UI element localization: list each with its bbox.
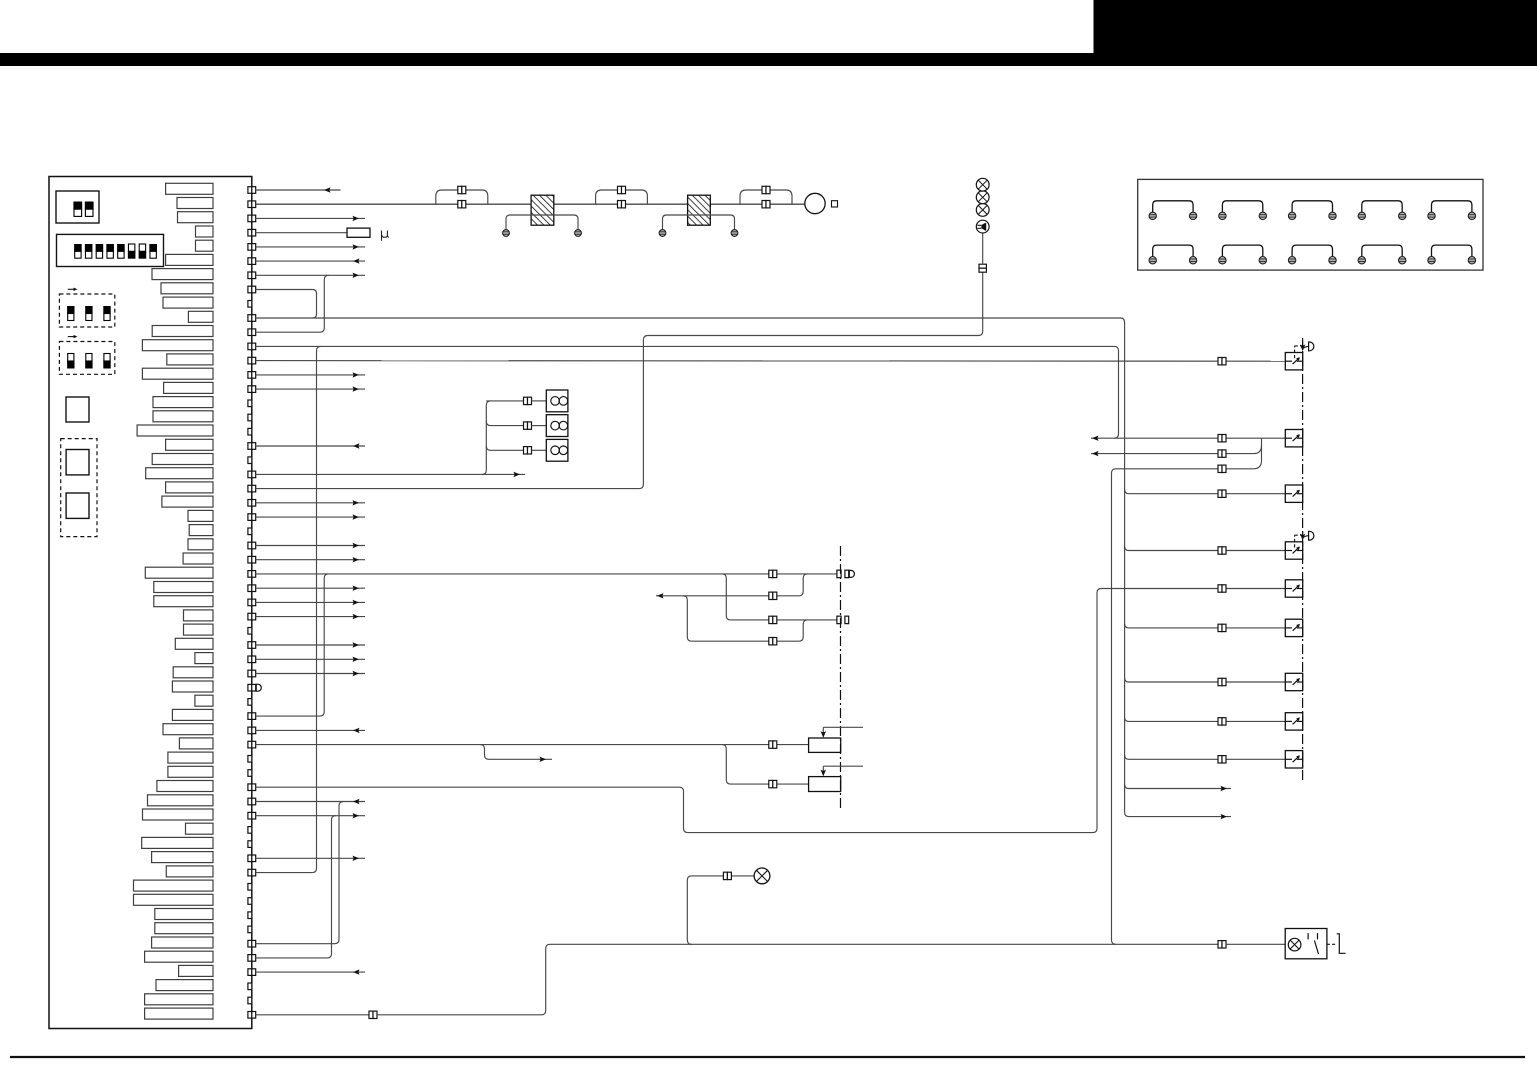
connector SW8	[1218, 718, 1222, 725]
jumper link row1 #5	[1428, 201, 1476, 220]
connector pin 19	[248, 443, 252, 450]
connector pin 14	[248, 372, 252, 379]
signal label bar 31	[184, 610, 214, 621]
connector pin 43	[248, 784, 252, 791]
switch SW4	[1285, 531, 1314, 559]
option unit box 3 (OO)	[546, 439, 568, 461]
wire pin 27 stub (out)	[256, 559, 365, 561]
connector pin 10	[248, 315, 252, 322]
switch SW5	[1285, 580, 1302, 597]
connector pin 31	[248, 613, 252, 620]
wire A branch down to wire C	[722, 574, 731, 620]
wire B branch down to wire D	[683, 596, 692, 641]
connector pin 44	[248, 798, 252, 805]
signal label bar 25	[189, 525, 213, 536]
connector lamp unit	[1218, 941, 1222, 948]
jumper link row2 #2	[1219, 245, 1267, 264]
signal label bar 6	[166, 254, 213, 265]
signal label bar 47	[142, 837, 213, 848]
lamp-switch unit box	[1285, 929, 1327, 959]
connector relay K1 feed	[769, 741, 773, 748]
signal label bar 59	[145, 1008, 213, 1019]
connector bottom run	[369, 1011, 373, 1018]
switch SW7	[1285, 673, 1302, 690]
signal label bar 43	[157, 781, 213, 792]
signal label bar 23	[162, 496, 213, 507]
switch SW9	[1285, 751, 1302, 768]
connector pin 41	[248, 756, 252, 763]
wire pin12 branch down to pin49	[256, 346, 321, 872]
connector pin 2	[248, 201, 252, 208]
signal label bar 4	[196, 226, 214, 237]
jumper link row2 #3	[1288, 245, 1336, 264]
connector pin 1	[248, 187, 252, 194]
connector pin 30	[248, 599, 252, 606]
wire pin43 long run to V1	[256, 589, 1102, 833]
connector SW4	[1218, 547, 1222, 554]
connector pair J3 with bypass loop	[740, 186, 792, 208]
jumper link row1 #2	[1219, 201, 1267, 220]
connector pin 33	[248, 642, 252, 649]
signal label bar 15	[164, 382, 213, 393]
wire pin 34 stub (out)	[256, 658, 365, 660]
connector pin 7	[248, 272, 252, 279]
switch SW1 heater	[1285, 342, 1314, 370]
signal label bar 42	[168, 766, 213, 777]
connector pin 24	[248, 514, 252, 521]
connector pin 23	[248, 500, 252, 507]
wire pin 30 stub (out)	[256, 601, 365, 603]
signal label bar 46	[186, 823, 214, 834]
relay K1	[809, 738, 841, 752]
connector pin 52	[248, 912, 252, 919]
signal label bar 54	[152, 937, 213, 948]
connector pin 15	[248, 386, 252, 393]
wire pin12 long run to V2a	[256, 346, 1119, 438]
header rule bar	[0, 53, 1537, 66]
signal label bar 19	[166, 439, 213, 450]
connector SW5	[1218, 585, 1222, 592]
switch SW6	[1285, 619, 1302, 636]
switch SW8	[1285, 713, 1302, 730]
connector pin 11	[248, 329, 252, 336]
manual actuator dashed link	[1327, 943, 1336, 945]
merge vertical before SW2	[1253, 438, 1261, 469]
connector pin 51	[248, 898, 252, 905]
wire pin 35 stub (out)	[256, 673, 365, 675]
signal label bar 35	[173, 667, 213, 678]
wire pin 24 stub (out)	[256, 516, 365, 518]
connector pin 56	[248, 969, 252, 976]
option unit box 1 (OO)	[546, 390, 568, 412]
wire option unit 2 feed	[486, 421, 523, 425]
jumper link row2 #1	[1149, 245, 1197, 264]
option feed bus	[482, 401, 491, 475]
inline connector on stack feed	[979, 264, 986, 268]
connector pin 3	[248, 215, 252, 222]
connector pin 25	[248, 528, 252, 535]
wire branch to arrow stub	[480, 745, 552, 760]
connector pin 49	[248, 869, 252, 876]
signal label bar 40	[179, 738, 213, 749]
connector pin 13	[248, 357, 252, 364]
wire arrow stub from V3 (y816)	[1125, 812, 1231, 816]
DIP switch block S2 (8 switches)	[57, 234, 164, 266]
wire pin13 long run to heater switch SW1	[256, 360, 1286, 363]
connector option 1	[524, 397, 528, 404]
signal label bar 29	[154, 582, 213, 593]
bus V2	[1112, 469, 1254, 945]
wire pin59 long bottom run to lamp unit	[256, 1014, 369, 1016]
signal label bar 49	[166, 866, 213, 877]
wire pin21 with branch to option units	[256, 473, 525, 475]
connector SW2	[1218, 435, 1222, 442]
wire pin28-pin38 vertical link	[256, 574, 329, 716]
connector option 3	[524, 447, 528, 454]
signal label bar 53	[155, 923, 213, 934]
wire pin 15 stub (out)	[256, 388, 365, 390]
wire pin 7 stub (out)	[256, 274, 365, 276]
dashed module with two squares	[61, 439, 97, 537]
wire pin 6 stub (in)	[256, 260, 365, 262]
connector pin 50	[248, 884, 252, 891]
wire SW5 from bus V1	[1101, 588, 1285, 590]
signal label bar 55	[145, 951, 213, 962]
wire SW6 from bus V3	[1125, 624, 1286, 628]
component square U1	[66, 397, 89, 422]
buzzer BZ1	[976, 220, 989, 233]
wire SW4 from bus V3	[1125, 546, 1286, 550]
signal label bar 38	[172, 709, 213, 720]
wire option unit 1 feed	[486, 400, 523, 402]
signal label bar 28	[145, 567, 213, 578]
DIP switch block S1 (2 switches)	[56, 191, 99, 223]
wire lamp L4 drop	[687, 876, 754, 944]
connector pin 26	[248, 542, 252, 549]
jumper link row2 #4	[1358, 245, 1406, 264]
signal label bar 9	[163, 297, 213, 308]
wire B (arrow in)	[656, 595, 799, 597]
connector pin 9	[248, 301, 252, 308]
wire SW7 from bus V3	[1125, 678, 1286, 682]
signal label bar 18	[137, 425, 213, 436]
wire pin40 to relay K1	[256, 744, 809, 746]
connector pin 5	[248, 244, 252, 251]
signal label bar 48	[152, 852, 213, 863]
connector pin 27	[248, 556, 252, 563]
signal label bar 11	[152, 326, 213, 337]
wire thermo SW2 (arrow in)	[1091, 437, 1285, 439]
connector merge line	[1218, 450, 1222, 457]
wire pin7-pin11 vertical link	[256, 275, 329, 332]
indicator lamps L1-L3	[976, 204, 989, 217]
wire pin 29 stub (out)	[256, 587, 365, 589]
signal label bar 10	[188, 311, 213, 322]
wire pin10 long run to V3	[256, 318, 1125, 493]
connector SW1	[1218, 358, 1222, 365]
signal label bar 7	[152, 269, 213, 280]
signal label bar 1	[166, 183, 213, 194]
option unit box 2 (OO)	[546, 415, 568, 437]
wire pin 45 stub (out)	[256, 815, 365, 817]
fuse F1	[347, 228, 370, 237]
wire pin 31 stub (out)	[256, 616, 365, 618]
connector pin 32	[248, 628, 252, 635]
connector pin 39	[248, 727, 252, 734]
connector pair J1 with bypass loop	[436, 186, 488, 208]
wire pin 14 stub (out)	[256, 374, 365, 376]
connector pin 17	[248, 414, 252, 421]
wire pin 33 stub (out)	[256, 644, 365, 646]
line filter T2 (hatched) with shield grounds	[659, 195, 738, 236]
plug symbol on wire A	[849, 570, 854, 577]
connector pin 47	[248, 841, 252, 848]
lamp L5 (circle-X)	[1288, 938, 1301, 951]
wire SW8 from bus V3	[1125, 717, 1286, 721]
wire pin 44 stub (in)	[256, 801, 365, 803]
signal label bar 37	[195, 695, 213, 706]
connector SW9	[1218, 756, 1222, 763]
connector pin 54	[248, 940, 252, 947]
relay K2	[809, 777, 841, 792]
connector pin 53	[248, 926, 252, 933]
wire stack feed upper	[982, 233, 984, 264]
boundary dash-dot line (right)	[1302, 338, 1304, 780]
connector SW3	[1218, 490, 1222, 497]
signal label bar 17	[153, 411, 213, 422]
connector on wire B	[769, 592, 773, 599]
connector relay K2 feed	[769, 780, 773, 787]
signal label bar 36	[172, 681, 213, 692]
connector pin 55	[248, 955, 252, 962]
connector lamp L4	[723, 872, 727, 879]
wire pin45-pin55 vertical link	[256, 816, 336, 958]
wire pin 4 stub	[256, 232, 347, 234]
signal label bar 57	[156, 980, 213, 991]
jumper link row2 #5	[1428, 245, 1476, 264]
signal label bar 27	[183, 553, 213, 564]
jumper link row1 #4	[1358, 201, 1406, 220]
harness connector pair on wire C	[837, 616, 841, 624]
wire A pin28 to connector pair	[256, 573, 837, 575]
connector pin 57	[248, 983, 252, 990]
wire pin 3 stub (out)	[256, 217, 365, 219]
connector on wire D	[769, 638, 773, 645]
signal label bar 12	[142, 340, 213, 351]
wire arrow stub from V3 (y788)	[1125, 784, 1231, 788]
connector pin 4	[248, 229, 252, 236]
value label u	[382, 231, 389, 241]
signal label bar 8	[161, 283, 213, 294]
connector on wire A	[769, 570, 773, 577]
DIP switch block S3 (3 switches, dashed)	[59, 288, 114, 327]
signal label bar 50	[134, 880, 214, 891]
signal label bar 13	[167, 354, 213, 365]
connector pin 22	[248, 485, 252, 492]
connector pin 58	[248, 997, 252, 1004]
control unit outline	[49, 177, 252, 1029]
connector pin 38	[248, 713, 252, 720]
harness connector pair on wire A	[837, 570, 841, 578]
wire pin 39 stub (in)	[256, 729, 365, 731]
connector pin 8	[248, 286, 252, 293]
signal label bar 51	[134, 894, 214, 905]
jumper matrix box	[1138, 179, 1483, 270]
signal label bar 14	[142, 368, 213, 379]
signal label bar 41	[168, 752, 213, 763]
boundary dash-dot line (middle)	[840, 546, 842, 808]
signal label bar 3	[178, 212, 214, 223]
wire pin44-pin54 vertical link	[256, 802, 343, 944]
bottom rule	[10, 1056, 1525, 1058]
connector SW7	[1218, 678, 1222, 685]
connector pin 21	[248, 471, 252, 478]
signal label bar 52	[155, 909, 213, 920]
connector pin 42	[248, 770, 252, 777]
jumper link row1 #1	[1149, 201, 1197, 220]
wire main power line pin2	[256, 203, 805, 205]
lamp L4 (circle-X)	[754, 868, 770, 884]
connector pin 59	[248, 1012, 252, 1019]
signal label bar 39	[163, 724, 213, 735]
wire pin 23 stub (out)	[256, 502, 365, 504]
switch contact in lamp unit	[1307, 933, 1309, 939]
wire pin8 join to pin10 net	[256, 290, 317, 319]
wire pin 56 stub (in)	[256, 971, 365, 973]
signal label bar 56	[179, 965, 213, 976]
wire pin 5 stub (out)	[256, 246, 365, 248]
connector pin 46	[248, 827, 252, 834]
connector pin 6	[248, 258, 252, 265]
connector pin 29	[248, 585, 252, 592]
connector SW6	[1218, 624, 1222, 631]
signal label bar 30	[154, 596, 213, 607]
line filter T1 (hatched) with shield grounds	[503, 195, 582, 236]
plug stub at pin 36	[256, 684, 261, 691]
wire pin 48 stub (out)	[256, 857, 365, 859]
signal label bar 24	[188, 510, 213, 521]
connector pin 18	[248, 428, 252, 435]
switch SW2 thermo	[1285, 430, 1302, 447]
connector pair J2 with bypass loop	[596, 186, 648, 208]
terminal square	[832, 201, 838, 207]
signal label bar 44	[148, 795, 214, 806]
connector pin 37	[248, 699, 252, 706]
motor M1 (circle)	[805, 193, 825, 213]
connector option 2	[524, 422, 528, 429]
wire C	[731, 619, 837, 621]
wire merge line (arrow in)	[1091, 446, 1262, 454]
connector pin 40	[248, 741, 252, 748]
signal label bar 21	[146, 468, 213, 479]
relay K2 actuate arrow	[823, 765, 863, 767]
connector pin 12	[248, 343, 252, 350]
connector V2 wire	[1218, 465, 1222, 472]
wire pin22 to indicator stack	[256, 272, 983, 488]
signal label bar 22	[166, 482, 213, 493]
wire SW3 from bus V3	[1125, 489, 1286, 493]
signal label bar 45	[143, 809, 214, 820]
wire D merge up into C	[799, 620, 808, 641]
jumper link row1 #3	[1288, 201, 1336, 220]
connector pin 48	[248, 855, 252, 862]
connector pin 45	[248, 812, 252, 819]
connector pin 28	[248, 571, 252, 578]
DIP switch block S4 (3 switches, dashed)	[59, 335, 114, 374]
wire B merge up into A	[799, 574, 808, 596]
connector on wire C	[769, 616, 773, 623]
switch SW3	[1285, 485, 1302, 502]
signal label bar 2	[177, 198, 213, 209]
wire SW9 from bus V3	[1125, 755, 1286, 759]
signal label bar 26	[188, 539, 213, 550]
wire branch down to relay K2	[722, 745, 809, 785]
wire pin 1 stub (in)	[256, 189, 341, 191]
connector pin 36	[248, 684, 252, 691]
signal label bar 33	[175, 638, 213, 649]
wire pin 19 stub (in)	[256, 445, 365, 447]
connector pin 16	[248, 400, 252, 407]
signal label bar 16	[153, 397, 213, 408]
connector pin 20	[248, 457, 252, 464]
wire option unit 3 feed	[486, 446, 523, 450]
signal label bar 32	[184, 624, 214, 635]
signal label bar 20	[152, 454, 213, 465]
wire pin 26 stub (out)	[256, 545, 365, 547]
wire D	[692, 640, 799, 642]
signal label bar 34	[195, 653, 213, 664]
connector pin 35	[248, 670, 252, 677]
signal label bar 58	[145, 994, 213, 1005]
bus V3 lower segment	[1124, 493, 1126, 812]
title block (black) top right	[1094, 0, 1537, 66]
connector pin 34	[248, 656, 252, 663]
relay K1 actuate arrow	[823, 726, 863, 728]
signal label bar 5	[196, 240, 214, 251]
